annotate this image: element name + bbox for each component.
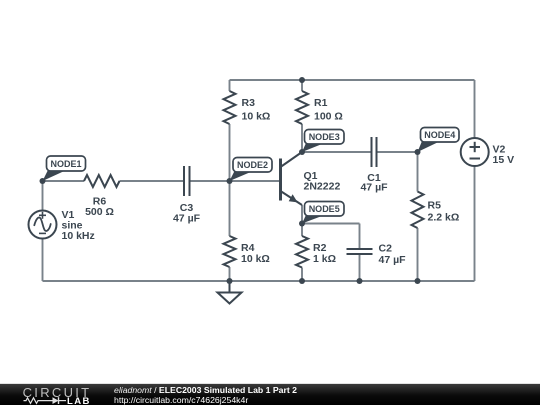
svg-text:NODE2: NODE2 (237, 160, 268, 170)
svg-text:NODE4: NODE4 (424, 130, 455, 140)
voltage source V1 (29, 211, 57, 239)
node NODE4 flag (418, 128, 460, 153)
wire V2 bottom lead (474, 166, 476, 282)
wire R3 bottom lead (229, 124, 231, 181)
svg-text:15 V: 15 V (493, 154, 515, 166)
wire C1 to node4 (377, 151, 418, 153)
svg-text:1 kΩ: 1 kΩ (313, 253, 336, 265)
wire R1 bottom lead (301, 124, 303, 152)
capacitor C2 (347, 249, 373, 254)
svg-text:R1: R1 (314, 97, 328, 109)
node dot NODE3 (299, 149, 305, 155)
svg-text:47 µF: 47 µF (379, 254, 407, 266)
node dot NODE2 (227, 178, 233, 184)
wire node1 to R6 (43, 180, 85, 182)
wire R5 bottom lead (417, 228, 419, 281)
node NODE3 flag (302, 130, 344, 153)
resistor R3 (224, 91, 236, 124)
junction dot R5 bottom (415, 278, 421, 284)
node NODE1 flag (43, 156, 86, 181)
svg-text:R3: R3 (242, 97, 256, 109)
svg-text:10 kHz: 10 kHz (62, 230, 95, 242)
CircuitLab logo (22, 384, 102, 406)
wire V1 bottom lead (42, 239, 44, 282)
wire R1 top lead (301, 80, 303, 91)
svg-text:47 µF: 47 µF (360, 182, 388, 194)
node dot NODE1 (40, 178, 46, 184)
wire Q1 emitter lead (301, 205, 303, 224)
wire C2 top lead (359, 224, 361, 250)
svg-text:2N2222: 2N2222 (304, 181, 341, 193)
svg-text:NODE3: NODE3 (309, 132, 340, 142)
node NODE2 flag (230, 158, 273, 182)
wire R4 bottom lead (229, 267, 231, 281)
svg-text:10 kΩ: 10 kΩ (241, 253, 270, 265)
footer bar (0, 383, 540, 405)
node dot NODE5 (299, 221, 305, 227)
wire R2 bottom lead (301, 268, 303, 282)
svg-text:C2: C2 (379, 243, 393, 255)
wire node2 to Q1 base (230, 180, 280, 182)
wire V2 top lead (474, 80, 476, 139)
wire bottom rail (43, 280, 475, 282)
wire node5 to C2 (302, 223, 360, 225)
svg-text:500 Ω: 500 Ω (85, 206, 114, 218)
resistor R4 (224, 236, 236, 267)
wire R4 top lead (229, 181, 231, 236)
wire C3 to node2 (190, 180, 230, 182)
svg-text:100 Ω: 100 Ω (314, 111, 343, 123)
svg-text:47 µF: 47 µF (173, 213, 201, 225)
node dot NODE4 (415, 149, 421, 155)
svg-text:LAB: LAB (67, 396, 91, 406)
svg-text:10 kΩ: 10 kΩ (242, 111, 271, 123)
svg-text:NODE1: NODE1 (50, 159, 81, 169)
svg-text:2.2 kΩ: 2.2 kΩ (428, 212, 460, 224)
junction dot R2 bottom (299, 278, 305, 284)
capacitor C1 (372, 137, 377, 167)
resistor R5 (412, 192, 424, 229)
wire top rail (230, 79, 475, 81)
resistor R2 (296, 236, 308, 268)
resistor R6 (84, 175, 120, 187)
transistor Q1 (281, 152, 303, 205)
wire R3 top lead (229, 80, 231, 91)
junction dot R1 top (299, 77, 305, 83)
wire R5 top lead (417, 152, 419, 192)
wire V1 top lead (42, 181, 44, 211)
voltage source V2 (461, 138, 489, 166)
resistor R1 (296, 91, 308, 124)
capacitor C3 (184, 166, 190, 196)
svg-text:R5: R5 (428, 200, 442, 212)
junction dot C2 bottom (357, 278, 363, 284)
ground (218, 281, 242, 304)
wire R2 top lead (301, 224, 303, 237)
junction dot ground (227, 278, 233, 284)
svg-text:NODE5: NODE5 (309, 204, 340, 214)
footer text (114, 385, 297, 405)
node NODE5 flag (302, 202, 344, 224)
wire R6 to C3 (120, 180, 184, 182)
wire node3 to C1 (302, 151, 372, 153)
wire C2 bottom lead (359, 254, 361, 281)
